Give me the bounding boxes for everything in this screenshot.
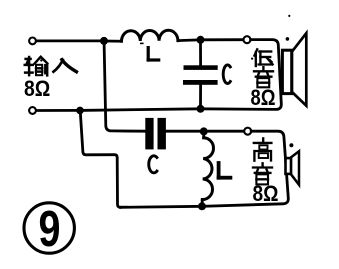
label input char 1 (shu)	[25, 57, 48, 76]
woofer speaker cone	[292, 33, 306, 106]
label C (C1 value)	[223, 65, 230, 84]
capacitor C2 (series, tweeter)	[145, 118, 166, 149]
wire: input- to junction	[37, 109, 80, 112]
junction: C1 bottom node	[197, 105, 205, 113]
woofer + terminal	[244, 36, 251, 43]
label high-freq char 2 (yin)	[253, 163, 272, 184]
woofer speaker driver	[282, 50, 291, 93]
junction: L2 bottom node	[198, 202, 206, 210]
svg-text:8Ω: 8Ω	[24, 76, 50, 101]
feed wire: node A down to series branch	[104, 44, 145, 132]
label L (L1 value)	[147, 46, 161, 62]
inductor L2 (parallel, tweeter)	[202, 133, 213, 205]
svg-text:8Ω: 8Ω	[253, 181, 279, 206]
wire: tweeter loop (top edge, right edge)	[202, 131, 288, 206]
label low-freq char 1 (di)	[251, 49, 273, 66]
wire: step from input- down to bottom rail	[80, 112, 120, 207]
input terminal + (top)	[29, 38, 36, 45]
node A junction	[100, 37, 108, 45]
speck artifact top right	[288, 15, 290, 17]
svg-text:9: 9	[39, 200, 61, 257]
label high-freq char 1 (gao)	[254, 138, 272, 160]
inductor L1	[121, 30, 177, 41]
label low-freq char 2 (yin)	[254, 67, 273, 87]
speck near L1 label	[140, 43, 144, 45]
label C (C2 value)	[149, 156, 157, 173]
tweeter polarity dot	[289, 143, 293, 147]
wire: C2 to tweeter terminal	[166, 130, 244, 133]
node B junction	[197, 36, 205, 44]
label input char 2 (ru)	[52, 58, 78, 72]
tweeter speaker cone	[291, 151, 299, 185]
wire: bottom rail (L2 bottom to step corner)	[120, 206, 202, 207]
junction: L2 top node	[200, 127, 208, 135]
wire: node B to woofer terminal	[201, 38, 244, 41]
label L (L2 value)	[217, 161, 233, 180]
wire: input+ to node A	[37, 40, 104, 43]
junction: input minus node	[76, 107, 84, 115]
wire: woofer loop (top edge, right edge, bottom edge)	[201, 40, 282, 110]
svg-text:8Ω: 8Ω	[251, 85, 276, 110]
tweeter speaker driver	[286, 158, 292, 174]
wire: return rail to input minus	[80, 109, 201, 111]
tweeter + terminal	[244, 128, 251, 135]
capacitor C1 (parallel, woofer)	[183, 42, 218, 107]
wire: L1 to node B	[178, 38, 201, 42]
figure number circle	[24, 203, 74, 253]
input terminal - (bottom)	[29, 107, 36, 114]
wire: node A to L1	[104, 40, 122, 43]
woofer polarity dot	[286, 37, 290, 41]
